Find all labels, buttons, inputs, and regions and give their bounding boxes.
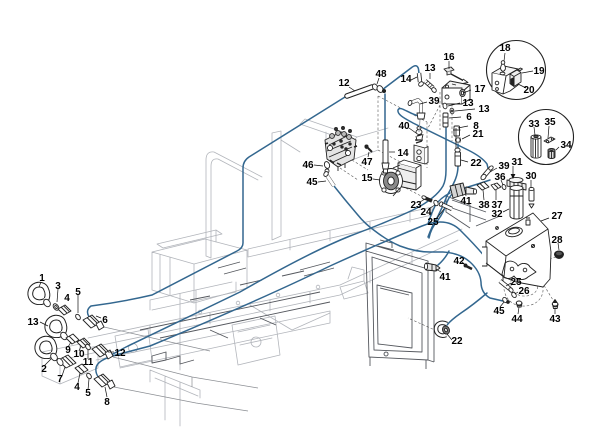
leader 30 bbox=[530, 180, 532, 188]
svg-text:30: 30 bbox=[525, 171, 537, 182]
wire hose C from fitting 8 to tank bbox=[96, 222, 489, 385]
plug 43 bbox=[552, 300, 558, 309]
hose end 13 bbox=[47, 318, 68, 341]
leader 10 bbox=[79, 346, 81, 351]
leader 41a bbox=[465, 190, 466, 196]
svg-text:12: 12 bbox=[338, 78, 350, 89]
fitting 8 bbox=[94, 374, 115, 389]
mount line fitting 12 bbox=[113, 357, 258, 388]
leader 48 bbox=[377, 78, 379, 84]
leader 42 bbox=[462, 262, 465, 265]
fitting 38 bbox=[477, 182, 489, 190]
leader 18 bbox=[504, 53, 505, 61]
chassis axle hole bbox=[129, 344, 138, 353]
pump 15 bbox=[380, 160, 422, 196]
tube 45 bbox=[323, 171, 334, 186]
chassis holes bbox=[236, 301, 240, 305]
chassis bracket center bbox=[250, 267, 368, 330]
svg-text:13: 13 bbox=[478, 104, 490, 115]
leader 14 bbox=[411, 77, 417, 80]
leader 14b bbox=[389, 151, 395, 153]
fitting 12 bbox=[92, 344, 113, 359]
detail circle 33-35 bbox=[519, 110, 574, 165]
svg-text:45: 45 bbox=[306, 177, 318, 188]
leader 5 bbox=[77, 295, 79, 313]
chassis floor plate lines bbox=[140, 271, 330, 338]
braided fitting 13 top bbox=[425, 81, 437, 93]
svg-text:13: 13 bbox=[462, 98, 474, 109]
tube 22 right bbox=[455, 128, 461, 166]
washer 5 bbox=[75, 313, 82, 320]
svg-text:8: 8 bbox=[104, 397, 110, 408]
mount line connector bbox=[191, 377, 193, 387]
wire hose from fitting 48 down to tube 14 bbox=[384, 94, 386, 142]
chassis steps dark bbox=[152, 352, 194, 364]
wire hose stub at fitting 41b bbox=[438, 251, 449, 265]
leader 37 bbox=[495, 190, 497, 200]
svg-text:12: 12 bbox=[114, 348, 126, 359]
chassis panel under platform bbox=[157, 230, 222, 248]
washer 24 bbox=[433, 200, 439, 207]
leader 34 bbox=[556, 147, 559, 150]
fitting 41 upper bbox=[450, 183, 477, 198]
leader 21 bbox=[462, 135, 470, 139]
detail circle 18-20 bbox=[487, 41, 546, 100]
leader 43 bbox=[554, 309, 556, 314]
svg-text:22: 22 bbox=[470, 158, 482, 169]
svg-text:19: 19 bbox=[533, 66, 545, 77]
fitting 37 bbox=[491, 183, 501, 190]
fitting stack 40 bbox=[415, 126, 423, 143]
svg-text:34: 34 bbox=[560, 140, 572, 151]
plug 44 bbox=[516, 301, 522, 307]
mount line fitting 6 bbox=[104, 327, 210, 351]
svg-text:47: 47 bbox=[361, 157, 373, 168]
leader 22a bbox=[461, 160, 468, 162]
leader 28 bbox=[558, 243, 559, 250]
chassis upper rear beam bbox=[248, 207, 432, 257]
leader 23 bbox=[420, 199, 425, 202]
leader 39c bbox=[490, 168, 497, 172]
hose end 2 bbox=[37, 339, 58, 362]
svg-text:16: 16 bbox=[443, 52, 455, 63]
leader 24 bbox=[430, 205, 435, 208]
leader 25a bbox=[437, 209, 444, 218]
svg-text:6: 6 bbox=[102, 315, 108, 326]
svg-text:4: 4 bbox=[74, 382, 80, 393]
washer 45 end bbox=[502, 297, 510, 304]
tank 27 bbox=[482, 213, 551, 287]
chassis front lower lines bbox=[150, 370, 200, 426]
fittings 48 bbox=[371, 83, 385, 93]
leader 8L bbox=[105, 387, 107, 397]
leader 40 bbox=[409, 128, 416, 133]
svg-text:9: 9 bbox=[65, 345, 71, 356]
svg-text:22: 22 bbox=[451, 336, 463, 347]
svg-text:27: 27 bbox=[551, 211, 563, 222]
chassis platform box bbox=[152, 239, 247, 303]
bolt 47 bbox=[365, 145, 372, 152]
svg-text:15: 15 bbox=[361, 173, 373, 184]
chassis misc short lines bbox=[218, 262, 334, 276]
leader 17 bbox=[463, 90, 471, 93]
dashed tank strap oval bbox=[504, 268, 543, 306]
chassis radiator core bbox=[377, 285, 412, 348]
wire hose P elbow 39 to tube 39b bbox=[398, 109, 488, 168]
svg-text:45: 45 bbox=[493, 306, 505, 317]
svg-text:2: 2 bbox=[41, 364, 47, 375]
wire hose G from tube 39b down to bundle bbox=[429, 180, 490, 238]
hose end 14 top bbox=[418, 73, 425, 87]
nut 21 bbox=[455, 138, 460, 143]
svg-text:14: 14 bbox=[400, 74, 412, 85]
leader 11 bbox=[87, 350, 89, 359]
washer 11 bbox=[85, 343, 92, 350]
svg-text:21: 21 bbox=[472, 129, 484, 140]
chassis axle bracket bbox=[115, 329, 152, 367]
wire hose D from tube 45 to tank fittings bbox=[334, 186, 503, 301]
leader 31 arrow bbox=[512, 166, 514, 176]
svg-text:26: 26 bbox=[518, 286, 530, 297]
fitting 4 bbox=[58, 305, 71, 315]
T-key 16 bbox=[444, 67, 468, 84]
svg-text:44: 44 bbox=[511, 314, 523, 325]
bolt 23 bbox=[421, 195, 432, 201]
svg-text:18: 18 bbox=[499, 43, 511, 54]
chassis axle center bbox=[232, 316, 280, 365]
svg-text:4: 4 bbox=[64, 293, 70, 304]
leader 13c bbox=[455, 109, 475, 111]
leader 16 bbox=[448, 61, 450, 69]
dashed line pump assembly left bbox=[378, 96, 427, 197]
svg-text:35: 35 bbox=[544, 117, 556, 128]
filter canister 32 bbox=[510, 186, 523, 219]
control valve 46 body bbox=[325, 127, 357, 172]
tube 14 above pump bbox=[382, 140, 389, 173]
wire hose 41a tail bbox=[428, 193, 450, 224]
leader 12 bbox=[349, 87, 355, 91]
washer 5b bbox=[86, 372, 93, 379]
chassis radiator top tank bbox=[366, 240, 428, 269]
svg-text:41: 41 bbox=[460, 196, 472, 207]
manifold 40 block bbox=[414, 145, 428, 164]
elbow 39 bbox=[407, 100, 425, 119]
tube 39 right bbox=[480, 165, 494, 181]
leader 15 bbox=[373, 179, 380, 180]
svg-text:36: 36 bbox=[494, 172, 506, 183]
wire hose B from fitting 12 to fitting 41 bbox=[108, 128, 446, 356]
leader 25b bbox=[506, 283, 511, 286]
washer 13 under valve bbox=[443, 103, 448, 109]
tube 25 bbox=[439, 201, 452, 209]
svg-text:11: 11 bbox=[83, 357, 94, 368]
wire hose V3 from tube 22a down bbox=[428, 166, 458, 237]
washer 13 second bbox=[450, 108, 455, 114]
leader 20 bbox=[518, 84, 526, 88]
leader 13 bbox=[429, 73, 431, 79]
svg-text:25: 25 bbox=[427, 217, 439, 228]
leader 2 bbox=[44, 359, 51, 366]
chassis mast verticals bbox=[272, 131, 300, 240]
leader 32 bbox=[503, 209, 509, 212]
svg-text:31: 31 bbox=[511, 157, 523, 168]
leader 45b bbox=[500, 302, 504, 307]
wire hose from fitting 48 up to hose end 14 bbox=[382, 66, 419, 90]
leader 12L bbox=[108, 351, 114, 353]
chassis radiator outer bbox=[366, 251, 428, 360]
chassis rear right bits bbox=[446, 196, 500, 228]
dashed tank to 43 bbox=[537, 274, 553, 300]
svg-text:32: 32 bbox=[491, 209, 503, 220]
svg-text:6: 6 bbox=[466, 112, 472, 123]
washer 36 bbox=[501, 184, 506, 190]
svg-text:42: 42 bbox=[453, 256, 465, 267]
leader 4c bbox=[78, 373, 80, 383]
dashed plug 28 to tank bbox=[514, 257, 556, 280]
fitting 41 lower bbox=[424, 263, 440, 271]
svg-text:43: 43 bbox=[549, 314, 561, 325]
leader 35 bbox=[548, 126, 549, 138]
arrowhead 31 bbox=[511, 174, 516, 179]
dashed fitting 22b bbox=[408, 318, 437, 331]
hose end 1 bbox=[30, 285, 51, 308]
svg-text:3: 3 bbox=[55, 281, 61, 292]
tank bottom bracket bbox=[502, 261, 536, 279]
plug 28 bbox=[555, 251, 564, 259]
chassis main rail lower bbox=[96, 311, 330, 368]
leader 46 bbox=[314, 165, 323, 166]
mount line fitting 8 bbox=[114, 387, 248, 411]
leader 9 bbox=[68, 342, 71, 347]
chassis loader arm top bbox=[300, 119, 388, 160]
tube 8 bbox=[453, 126, 461, 136]
leader 39 bbox=[420, 102, 427, 104]
screw 42 bbox=[464, 264, 472, 269]
leader 6b bbox=[449, 117, 461, 118]
chassis main rail upper bbox=[88, 229, 462, 348]
chassis front-left box bbox=[42, 344, 98, 384]
svg-text:13: 13 bbox=[424, 63, 436, 74]
svg-text:38: 38 bbox=[478, 200, 490, 211]
fitting 10 bbox=[77, 338, 90, 348]
svg-text:46: 46 bbox=[302, 160, 314, 171]
fitting 46 bbox=[323, 161, 330, 173]
washer 26 bbox=[511, 292, 517, 299]
wire hose F to bottom fitting 22 bbox=[447, 293, 487, 325]
fitting 9 bbox=[66, 334, 79, 344]
chassis engine bay lines bbox=[150, 282, 236, 370]
wire hose V2 from nut 21 down bbox=[457, 144, 459, 152]
leader 44 bbox=[518, 307, 519, 314]
dashed line valve 46 to pump bbox=[340, 160, 368, 180]
leader 8b bbox=[458, 126, 468, 128]
leader 47 bbox=[368, 152, 369, 157]
svg-text:39: 39 bbox=[428, 96, 440, 107]
filter head 31 bbox=[507, 177, 526, 190]
leader 1 bbox=[39, 282, 41, 287]
leader 13b bbox=[448, 103, 460, 106]
svg-text:33: 33 bbox=[528, 119, 540, 130]
leader 3 bbox=[57, 289, 58, 302]
svg-text:1: 1 bbox=[39, 273, 45, 284]
leader 36 bbox=[501, 180, 503, 185]
leader 26 bbox=[515, 292, 518, 294]
washer 3 bbox=[52, 303, 60, 312]
svg-text:5: 5 bbox=[75, 287, 81, 298]
dashed line valve 17 down bbox=[428, 92, 452, 141]
leader 33 bbox=[534, 127, 535, 135]
wire hose A from fitting 6 to corner to hose 12 bbox=[88, 97, 345, 324]
svg-text:17: 17 bbox=[474, 84, 486, 95]
svg-text:28: 28 bbox=[551, 235, 563, 246]
svg-text:41: 41 bbox=[439, 272, 451, 283]
leader 45 bbox=[318, 181, 326, 182]
svg-text:7: 7 bbox=[57, 374, 63, 385]
leader 13L bbox=[40, 322, 48, 326]
leader 5c bbox=[88, 379, 89, 390]
chassis cross ticks bbox=[150, 253, 412, 336]
leader 27 bbox=[541, 218, 549, 221]
svg-text:5: 5 bbox=[85, 388, 91, 399]
chassis radiator feet bbox=[370, 266, 434, 369]
fitting 30 bbox=[529, 187, 534, 208]
fitting 7 bbox=[56, 355, 76, 368]
tube 25 lower bbox=[500, 281, 514, 293]
fitting 4b bbox=[75, 364, 88, 374]
leader 38 bbox=[483, 190, 484, 200]
stem under elbow 39 bbox=[419, 119, 420, 132]
leader 41b bbox=[436, 269, 441, 272]
svg-text:14: 14 bbox=[397, 148, 409, 159]
chassis left rounded panel bbox=[206, 152, 262, 258]
leader 22b bbox=[447, 334, 452, 340]
fitting 22 bottom bbox=[436, 323, 451, 336]
svg-text:20: 20 bbox=[523, 85, 535, 96]
svg-text:40: 40 bbox=[398, 121, 410, 132]
leader 19 bbox=[522, 71, 533, 73]
leader 7 bbox=[62, 367, 65, 376]
tube 6 bbox=[443, 113, 448, 127]
svg-text:13: 13 bbox=[27, 317, 39, 328]
hose 12 bbox=[347, 87, 372, 96]
valve block 17 bbox=[442, 81, 470, 104]
fitting 6 bbox=[83, 315, 104, 330]
svg-text:48: 48 bbox=[375, 69, 387, 80]
leader 6L bbox=[96, 316, 101, 318]
svg-text:39: 39 bbox=[498, 161, 510, 172]
